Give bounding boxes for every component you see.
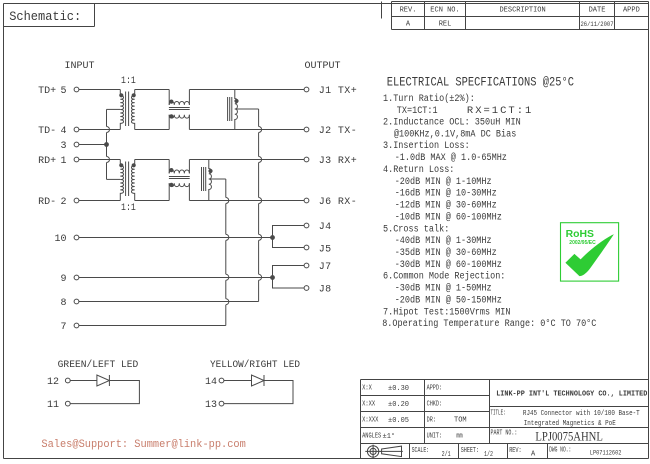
svg-text:RD+: RD+ xyxy=(38,156,56,167)
svg-text:5.Cross talk:: 5.Cross talk: xyxy=(383,223,449,235)
svg-text:-30dB MIN @ 60-100MHz: -30dB MIN @ 60-100MHz xyxy=(395,258,502,270)
svg-text:A: A xyxy=(406,21,411,29)
svg-text:-30dB MIN @ 1-50MHz: -30dB MIN @ 1-50MHz xyxy=(395,282,492,294)
svg-text:2: 2 xyxy=(60,197,66,208)
svg-text:3: 3 xyxy=(60,141,66,152)
TX center-tap vertical with hops xyxy=(258,109,260,302)
svg-text:RoHS: RoHS xyxy=(566,229,594,240)
svg-text:ELECTRICAL SPECFICATIONS @25°C: ELECTRICAL SPECFICATIONS @25°C xyxy=(387,75,574,90)
svg-text:-10dB MIN @ 60-100MHz: -10dB MIN @ 60-100MHz xyxy=(395,211,502,223)
svg-text:-1.0dB MAX @ 1.0-65MHz: -1.0dB MAX @ 1.0-65MHz xyxy=(395,151,507,163)
svg-text:-12dB MIN @ 30-60MHz: -12dB MIN @ 30-60MHz xyxy=(395,199,497,211)
common-mode choke CMC1 bottom winding xyxy=(169,115,189,118)
pin 5 TD+ xyxy=(38,86,79,97)
svg-text:DESCRIPTION: DESCRIPTION xyxy=(499,6,545,14)
svg-text:1:1: 1:1 xyxy=(121,74,136,86)
svg-text:1.Turn Ratio(±2%):: 1.Turn Ratio(±2%): xyxy=(383,92,475,104)
svg-text:4.Return Loss:: 4.Return Loss: xyxy=(383,163,454,175)
wire junction to J4 xyxy=(273,226,305,238)
common-mode choke CMC1 top winding xyxy=(169,101,189,104)
svg-text:A: A xyxy=(531,451,536,459)
svg-text:-20dB MIN @ 1-10MHz: -20dB MIN @ 1-10MHz xyxy=(395,175,492,187)
svg-text:RJ45 Connector with 10/100 Bas: RJ45 Connector with 10/100 Base-T xyxy=(523,410,640,418)
title block text xyxy=(362,384,647,459)
transformer T1 phase dots xyxy=(120,94,123,97)
autotransformer L1 core xyxy=(228,97,232,121)
svg-text:DATE: DATE xyxy=(589,6,606,14)
title block grid xyxy=(361,380,649,459)
pin 7 xyxy=(60,322,78,333)
svg-text:±0.05: ±0.05 xyxy=(388,417,409,425)
svg-text:2002/95/EC: 2002/95/EC xyxy=(569,240,596,246)
svg-text:Sales@Support: Summer@link-pp.: Sales@Support: Summer@link-pp.com xyxy=(41,439,245,451)
pin J1 TX+ xyxy=(304,86,357,97)
diode D1 green LED xyxy=(70,375,139,404)
pin J6 RX- xyxy=(304,197,357,208)
svg-text:INPUT: INPUT xyxy=(64,61,94,72)
transformer T1 primary winding xyxy=(120,90,123,130)
svg-text:TOM: TOM xyxy=(454,417,467,425)
autotransformer L2 phase dot xyxy=(209,169,212,172)
diode D2 yellow LED xyxy=(224,375,293,404)
transformer T2 secondary winding xyxy=(131,160,134,201)
wire T2 secondary top to CMC2 xyxy=(135,160,170,174)
svg-text:X:XXX: X:XXX xyxy=(362,416,379,424)
svg-text:2/1: 2/1 xyxy=(442,450,451,458)
wire junction to J7 xyxy=(273,266,305,278)
RoHS logo xyxy=(561,223,619,281)
wire pin3 to center-tap junction xyxy=(79,144,107,146)
schematic label xyxy=(9,10,81,24)
svg-text:SHEET:: SHEET: xyxy=(461,446,479,454)
pin J4 xyxy=(304,222,331,233)
autotransformer L2 winding xyxy=(209,160,212,201)
CMC1 phase dots xyxy=(170,100,173,103)
svg-text:@100KHz,0.1V,8mA DC Bias: @100KHz,0.1V,8mA DC Bias xyxy=(394,128,516,140)
svg-text:11: 11 xyxy=(47,400,59,411)
wire pin9 to J7/J8 junction xyxy=(79,277,273,279)
pin J8 xyxy=(304,285,331,296)
svg-text:8: 8 xyxy=(60,298,66,309)
svg-text:1: 1 xyxy=(60,156,66,167)
svg-text:-16dB MIN @ 10-30MHz: -16dB MIN @ 10-30MHz xyxy=(395,187,497,199)
svg-text:Integrated Magnetics & PoE: Integrated Magnetics & PoE xyxy=(524,420,616,428)
svg-text:1:1: 1:1 xyxy=(121,201,136,213)
wire pin2 to T2 primary bottom xyxy=(79,200,120,202)
wire junction to J8 xyxy=(273,278,305,289)
svg-text:J3 RX+: J3 RX+ xyxy=(319,156,357,167)
svg-text:DR:: DR: xyxy=(427,416,436,424)
svg-text:J2 TX-: J2 TX- xyxy=(319,126,357,137)
svg-text:YELLOW/RIGHT LED: YELLOW/RIGHT LED xyxy=(210,359,300,370)
junction dot J4/J5 xyxy=(271,236,275,240)
wire T1 secondary bottom to CMC1 xyxy=(135,115,170,130)
autotransformer L1 winding xyxy=(235,90,238,130)
svg-text:J4: J4 xyxy=(319,222,332,233)
svg-text:±0.20: ±0.20 xyxy=(388,401,409,409)
svg-text:J7: J7 xyxy=(319,262,332,273)
svg-text:UNIT:: UNIT: xyxy=(427,432,443,440)
svg-text:±0.30: ±0.30 xyxy=(388,385,409,393)
third-angle projection symbol xyxy=(365,445,403,459)
transformer T1 secondary winding xyxy=(131,90,134,130)
svg-text:REV.: REV. xyxy=(400,6,417,14)
pin 3 xyxy=(60,141,78,152)
common-mode choke CMC2 core xyxy=(169,177,190,179)
wire CMC2 to J6 rail xyxy=(189,183,304,200)
wire junction to J5 xyxy=(273,238,305,248)
wire L1 center tap xyxy=(235,108,259,110)
wire T1 secondary top to CMC1 xyxy=(135,90,170,105)
svg-text:1/2: 1/2 xyxy=(484,450,493,458)
svg-text:9: 9 xyxy=(60,274,66,285)
svg-text:J5: J5 xyxy=(319,244,332,255)
svg-text:DWG NO.:: DWG NO.: xyxy=(549,445,571,453)
svg-text:ECN NO.: ECN NO. xyxy=(430,6,459,14)
wire pin1 to T2 primary top xyxy=(79,159,120,161)
svg-text:J8: J8 xyxy=(319,285,332,296)
wire pin4 to T1 primary bottom xyxy=(79,129,120,131)
wire L2 center tap xyxy=(209,178,226,180)
svg-text:X:XX: X:XX xyxy=(362,400,375,408)
svg-text:4: 4 xyxy=(60,126,66,137)
svg-text:APPD:: APPD: xyxy=(427,384,443,392)
svg-text:14: 14 xyxy=(205,377,217,388)
svg-text:-40dB MIN @ 1-30MHz: -40dB MIN @ 1-30MHz xyxy=(395,234,492,246)
svg-text:PART NO.:: PART NO.: xyxy=(491,429,518,437)
common-mode choke CMC2 top winding xyxy=(169,170,189,173)
pin J3 RX+ xyxy=(304,156,357,167)
pin 2 RD- xyxy=(38,197,79,208)
schematic title box xyxy=(4,4,95,27)
svg-text:J6 RX-: J6 RX- xyxy=(319,197,357,208)
svg-text:7: 7 xyxy=(60,322,66,333)
wire pin5 to T1 primary top xyxy=(79,89,120,91)
svg-text:5: 5 xyxy=(60,86,66,97)
svg-text:OUTPUT: OUTPUT xyxy=(304,61,340,72)
primary center-tap vertical with hops xyxy=(106,109,108,179)
pin 14 xyxy=(205,377,224,388)
svg-text:13: 13 xyxy=(205,400,217,411)
junction dot pin3 xyxy=(105,143,109,147)
wire CMC1 to J2 rail xyxy=(189,115,304,130)
svg-text:TX=1CT:1: TX=1CT:1 xyxy=(397,104,438,116)
pin 9 xyxy=(60,274,78,285)
wire pin8 to TX center-tap vertical xyxy=(79,301,259,303)
transformer T2 phase dots xyxy=(120,164,123,167)
svg-text:SCALE:: SCALE: xyxy=(412,446,430,454)
revision table xyxy=(392,2,649,30)
svg-text:±1°: ±1° xyxy=(383,432,396,441)
svg-text:26/11/2007: 26/11/2007 xyxy=(580,21,614,28)
svg-text:6.Common Mode Rejection:: 6.Common Mode Rejection: xyxy=(383,270,505,282)
svg-text:CHKD:: CHKD: xyxy=(427,400,443,408)
electrical specifications text xyxy=(382,75,596,330)
svg-text:2.Inductance OCL: 350uH MIN: 2.Inductance OCL: 350uH MIN xyxy=(383,116,521,128)
svg-text:REV:: REV: xyxy=(509,446,521,454)
svg-text:APPD: APPD xyxy=(623,6,640,14)
transformer T2 primary center tap xyxy=(107,178,121,180)
pin J5 xyxy=(304,244,331,255)
pin 1 RD+ xyxy=(38,156,79,167)
common-mode choke CMC2 bottom winding xyxy=(169,183,189,186)
svg-text:-35dB MIN @ 30-60MHz: -35dB MIN @ 30-60MHz xyxy=(395,246,497,258)
common-mode choke CMC1 core xyxy=(169,108,190,110)
transformer T1 core xyxy=(126,92,129,127)
pin J7 xyxy=(304,262,331,273)
wire pin10 to J4/J5 junction xyxy=(79,237,273,239)
svg-text:3.Insertion Loss:: 3.Insertion Loss: xyxy=(383,139,470,151)
svg-text:8.Operating Temperature Range:: 8.Operating Temperature Range: 0°C TO 70… xyxy=(382,317,596,329)
transformer T2 primary winding xyxy=(120,160,123,201)
autotransformer L1 phase dot xyxy=(235,99,238,102)
RX center-tap vertical with hops xyxy=(225,179,227,326)
junction dot J7/J8 xyxy=(271,276,275,280)
autotransformer L2 core xyxy=(202,167,206,191)
wire CMC2 to J3 rail xyxy=(189,160,304,174)
svg-text:LINK-PP INT'L TECHNOLOGY CO.,: LINK-PP INT'L TECHNOLOGY CO., LIMITED xyxy=(496,390,647,398)
svg-text:TD+: TD+ xyxy=(38,86,56,97)
svg-text:X:X: X:X xyxy=(362,384,372,392)
svg-text:LP07112602: LP07112602 xyxy=(590,449,622,456)
svg-text:10: 10 xyxy=(54,234,66,245)
svg-text:ANGLES: ANGLES xyxy=(362,432,381,440)
pin 8 xyxy=(60,298,78,309)
svg-text:TITLE:: TITLE: xyxy=(491,408,506,416)
svg-text:GREEN/LEFT LED: GREEN/LEFT LED xyxy=(58,359,139,370)
transformer T1 primary center tap xyxy=(107,108,121,110)
svg-text:7.Hipot Test:1500Vrms MIN: 7.Hipot Test:1500Vrms MIN xyxy=(383,306,510,318)
svg-text:-20dB MIN @ 50-150MHz: -20dB MIN @ 50-150MHz xyxy=(395,294,502,306)
pin 13 xyxy=(205,400,224,411)
pin 10 xyxy=(54,234,78,245)
svg-text:RD-: RD- xyxy=(38,197,56,208)
svg-text:REL: REL xyxy=(439,21,452,29)
svg-text:Schematic:: Schematic: xyxy=(9,10,81,24)
wire CMC1 to J1 rail xyxy=(189,90,304,105)
svg-text:TD-: TD- xyxy=(38,126,56,137)
svg-text:J1 TX+: J1 TX+ xyxy=(319,86,357,97)
pin 11 xyxy=(47,400,70,411)
svg-text:mm: mm xyxy=(456,432,463,440)
revision table text xyxy=(400,6,640,28)
pin 4 TD- xyxy=(38,126,79,137)
pin 12 xyxy=(47,377,70,388)
svg-text:12: 12 xyxy=(47,377,59,388)
pin J2 TX- xyxy=(304,126,357,137)
svg-text:RX=1CT:1: RX=1CT:1 xyxy=(467,105,533,117)
CMC2 phase dots xyxy=(170,169,173,172)
wire T2 secondary bottom to CMC2 xyxy=(135,183,170,200)
svg-text:LPJ0075AHNL: LPJ0075AHNL xyxy=(535,428,602,443)
sales email text xyxy=(41,439,245,451)
transformer T2 core xyxy=(126,162,129,197)
wire pin7 to RX center-tap vertical xyxy=(79,325,226,327)
